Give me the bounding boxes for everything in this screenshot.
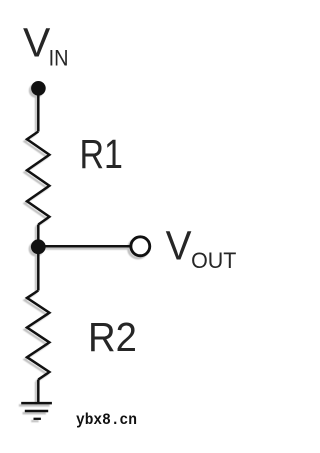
svg-text:OUT: OUT [191,248,237,273]
watermark ybx8.cn [76,411,137,429]
svg-text:V: V [23,20,51,66]
svg-text:V: V [166,223,193,269]
label R1 [80,131,123,177]
label R2 [88,314,137,360]
label VOUT [166,223,237,273]
node junction dot [31,239,46,254]
wire junction to VOUT terminal [45,245,130,248]
wire VIN node to R1 top [37,95,40,132]
resistor R2 [27,291,49,380]
ground [21,403,52,419]
svg-text:IN: IN [49,46,69,71]
svg-text:R2: R2 [88,314,137,360]
svg-text:R1: R1 [80,131,123,177]
shadow layer (grey offset copies of circuit strokes) [19,83,148,421]
wire junction to R2 top [37,253,40,291]
wire R2 bottom to ground [37,380,40,403]
label VIN [23,20,69,71]
resistor R1 [27,132,49,225]
node VIN terminal dot [31,81,46,96]
svg-text:ybx8.cn: ybx8.cn [76,411,137,429]
wire R1 bottom to junction node [37,225,40,247]
node VOUT open terminal [131,237,150,256]
